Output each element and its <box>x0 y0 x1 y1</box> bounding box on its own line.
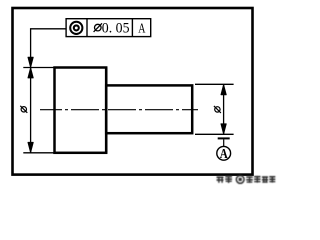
extension line bottom right <box>195 133 234 135</box>
feature control frame box U1 <box>66 19 151 37</box>
extension line bottom left <box>23 152 54 154</box>
right dimension arrowhead down <box>221 124 226 134</box>
left diameter sign <box>21 107 26 112</box>
svg-text:0. 05: 0. 05 <box>102 20 130 36</box>
large cylinder outline <box>55 68 107 153</box>
leader arrowhead pointing down <box>28 57 33 67</box>
step edge (large cylinder end face) <box>105 68 108 153</box>
right dimension arrowhead up <box>221 85 226 95</box>
left dimension arrowhead down <box>28 142 33 152</box>
drawing border frame <box>13 8 253 175</box>
leader from frame to left dimension line <box>31 29 67 67</box>
right diameter sign <box>215 107 220 112</box>
small cylinder outline <box>106 85 192 133</box>
left dimension arrowhead up <box>28 68 33 78</box>
extension line top left <box>23 67 54 69</box>
svg-text:A: A <box>220 146 228 161</box>
tolerance diameter sign <box>95 24 102 31</box>
right dimension line <box>223 85 225 134</box>
centerline (shaft axis) <box>40 109 198 111</box>
extension line top right <box>195 83 234 85</box>
concentricity symbol <box>70 22 82 34</box>
left dimension line <box>30 68 32 153</box>
watermark text blobs <box>217 176 276 184</box>
datum stem <box>223 139 225 146</box>
datum base bar <box>218 137 230 139</box>
frame divider 1 <box>86 19 88 37</box>
frame divider 2 <box>131 19 133 37</box>
svg-text:A: A <box>138 21 146 36</box>
datum circle A <box>217 146 231 160</box>
